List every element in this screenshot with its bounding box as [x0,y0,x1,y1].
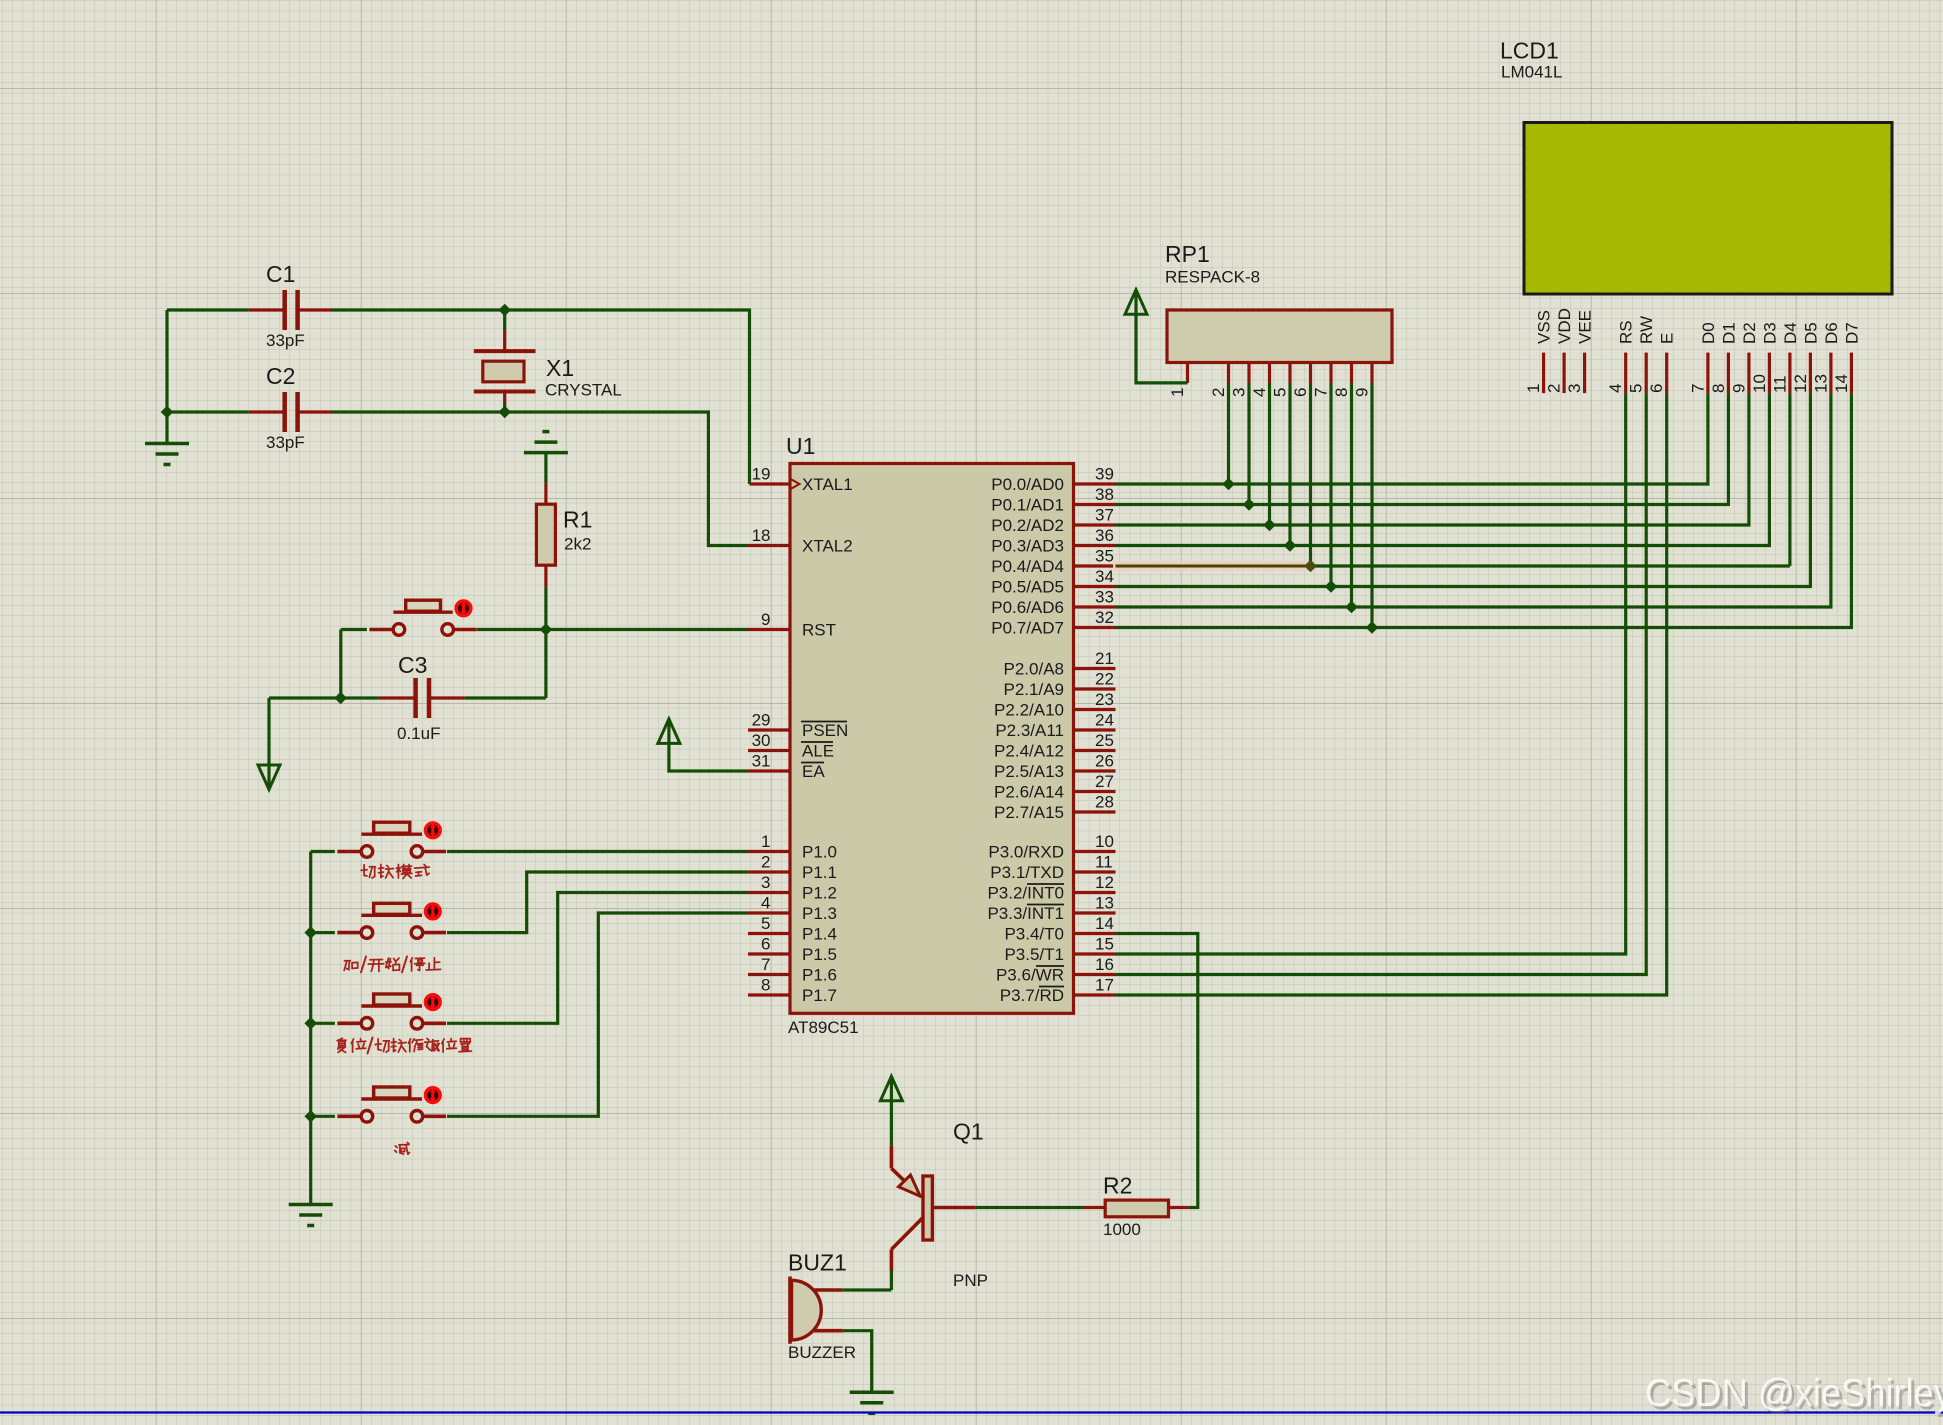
svg-text:1: 1 [1168,388,1187,397]
node P0.4/RP junction [1304,560,1317,573]
svg-text:P2.0/A8: P2.0/A8 [1004,660,1065,679]
label: switch mode (chinese) [361,869,367,872]
svg-text:P1.2: P1.2 [802,884,837,903]
ground (button bus) [289,1203,333,1207]
svg-text:12: 12 [1791,374,1810,393]
svg-text:14: 14 [1832,374,1851,393]
svg-text:12: 12 [1095,873,1114,892]
pin 2 P1.1 [748,870,790,873]
node P0.5/RP junction [1325,580,1338,593]
svg-text:D4: D4 [1781,322,1800,344]
svg-text:6: 6 [1291,388,1310,397]
svg-text:VEE: VEE [1576,310,1595,344]
svg-text:P1.0: P1.0 [802,843,837,862]
pin 5 RP1 [1288,363,1291,384]
LCD1 LM041L display [1524,123,1892,295]
wire RP1 pin4 drop [1268,383,1271,525]
svg-text:LM041L: LM041L [1501,63,1562,82]
svg-text:RST: RST [802,621,836,640]
svg-text:E: E [1658,333,1677,344]
svg-text:LCD1: LCD1 [1500,38,1559,64]
crystal X1 [503,310,506,330]
svg-text:BUZZER: BUZZER [788,1343,856,1362]
svg-text:32: 32 [1095,608,1114,627]
wire EA net [669,721,748,771]
pin 12 LCD D5 [1809,353,1812,394]
wire buzzer to ground [843,1331,872,1393]
svg-text:5: 5 [1627,384,1646,393]
wire RP1 pin9 drop [1370,383,1373,628]
svg-text:P3.1/TXD: P3.1/TXD [990,863,1064,882]
svg-text:CSDN @xieShirley: CSDN @xieShirley [1645,1372,1943,1415]
pin 21 P2.0/A8 [1074,667,1116,670]
svg-text:25: 25 [1095,731,1114,750]
svg-text:5: 5 [761,914,770,933]
pin 36 P0.3/AD3 [1074,544,1116,547]
svg-text:34: 34 [1095,567,1114,586]
node bus junction 2 [304,1017,317,1030]
pin 38 P0.1/AD1 [1074,503,1116,506]
wire P1.1 net [447,872,748,933]
svg-text:XTAL1: XTAL1 [802,475,853,494]
pin 7 LCD D0 [1706,353,1709,394]
capacitor C3 0.1uF [413,678,418,718]
window edge blue line [0,1411,1943,1413]
wire C2 net to XTAL2 [167,410,249,413]
svg-text:1: 1 [1524,384,1543,393]
svg-text:24: 24 [1095,711,1114,730]
svg-text:P2.7/A15: P2.7/A15 [994,803,1064,822]
svg-text:33pF: 33pF [266,331,305,350]
svg-text:D1: D1 [1719,322,1738,344]
svg-text:8: 8 [761,976,770,995]
pin 17 P3.7/RD [1074,993,1116,996]
push button (switch mode) [337,850,359,854]
pin 25 P2.4/A12 [1074,749,1116,752]
pin 22 P2.1/A9 [1074,687,1116,690]
pin 33 P0.6/AD6 [1074,605,1116,608]
pin 34 P0.5/AD5 [1074,585,1116,588]
svg-text:23: 23 [1095,690,1114,709]
pin 5 P1.4 [748,932,790,935]
wire P0.7 net [1116,393,1852,627]
ground (C2 left) [165,412,168,444]
node P0.6/RP junction [1345,601,1358,614]
svg-text:Q1: Q1 [953,1119,984,1145]
node P0.1/RP junction [1243,498,1256,511]
svg-text:30: 30 [752,731,771,750]
svg-text:10: 10 [1750,374,1769,393]
wire P0.6 net [1116,393,1831,607]
wire P0.0 net [1116,393,1708,484]
push button (reset/switch position) [337,1021,359,1025]
pin 16 P3.6/WR [1074,973,1116,976]
ground (buzzer) [850,1391,894,1395]
pin 19 XTAL1 [750,482,791,485]
label: add/start/stop (chinese) [345,960,351,962]
node X1 top junction [498,304,511,317]
wire RP1 pin7 drop [1329,383,1332,587]
svg-text:P3.2/INT0: P3.2/INT0 [987,884,1064,903]
pin 1 P1.0 [748,850,790,853]
pin 7 RP1 [1329,363,1332,384]
node bus junction 3 [304,1110,317,1123]
pin 14 P3.4/T0 [1074,932,1116,935]
pin 10 LCD D3 [1768,353,1771,394]
svg-text:D2: D2 [1740,322,1759,344]
pin 7 P1.6 [748,973,790,976]
pin 18 XTAL2 [748,544,790,547]
node P0.3/RP junction [1284,539,1297,552]
svg-text:PNP: PNP [953,1271,988,1290]
svg-text:9: 9 [761,610,770,629]
svg-text:P0.0/AD0: P0.0/AD0 [991,475,1064,494]
wire P3.5/T1 to LCD RS [1116,393,1626,954]
wire RP1 pin1 to power [1136,292,1188,383]
pin 26 P2.5/A13 [1074,769,1116,772]
svg-text:P3.3/INT1: P3.3/INT1 [987,904,1064,923]
pin 24 P2.3/A11 [1074,728,1116,731]
svg-text:11: 11 [1095,853,1113,872]
wire C1 net to XTAL1 [167,308,249,311]
svg-text:31: 31 [752,752,771,771]
svg-text:18: 18 [752,526,771,545]
svg-text:D5: D5 [1801,322,1820,344]
wire P0.4 highlighted net [1113,562,1316,571]
node X1 bottom junction [498,406,511,419]
pin 14 LCD D7 [1850,353,1853,394]
pin 6 P1.5 [748,952,790,955]
node C2-ground junction [161,406,174,419]
svg-text:RS: RS [1617,320,1636,344]
pin 3 RP1 [1247,363,1250,384]
wire collector to buzzer [890,1271,893,1291]
pin 9 RP1 [1370,363,1373,384]
svg-text:10: 10 [1095,832,1114,851]
svg-text:VSS: VSS [1535,310,1554,344]
power arrow (Q1 emitter) [880,1076,902,1101]
svg-text:22: 22 [1095,670,1114,689]
svg-text:ALE: ALE [802,742,834,761]
svg-text:3: 3 [1230,388,1249,397]
svg-text:1: 1 [761,832,770,851]
svg-text:P0.3/AD3: P0.3/AD3 [991,537,1064,556]
node C3 left junction [334,692,347,705]
pin 4 LCD RS [1624,353,1627,394]
svg-text:9: 9 [1729,384,1748,393]
wire P1.0 net [447,850,748,853]
wire P3.4/T0 to R2 [1116,934,1198,1208]
push button (add/start/stop) [337,931,359,935]
pin 15 P3.5/T1 [1074,952,1116,955]
svg-text:1000: 1000 [1103,1220,1141,1239]
svg-text:19: 19 [752,465,771,484]
svg-text:BUZ1: BUZ1 [788,1250,847,1276]
wire RP1 pin8 drop [1350,383,1353,607]
svg-text:37: 37 [1095,506,1114,525]
svg-text:7: 7 [761,955,770,974]
svg-text:R1: R1 [563,507,592,533]
pin 1 LCD VSS [1542,353,1545,394]
svg-text:P1.5: P1.5 [802,945,837,964]
pin 4 RP1 [1268,363,1271,384]
svg-text:C1: C1 [266,261,295,287]
pin 2 RP1 [1227,363,1230,384]
wire reset button left to C3 [341,628,367,631]
label: minus (chinese) [395,1146,397,1148]
pin 29 PSEN [748,728,790,731]
svg-text:X1: X1 [546,355,574,381]
pin 39 P0.0/AD0 [1074,482,1116,485]
pin 6 RP1 [1309,363,1312,384]
pin 28 P2.7/A15 [1074,810,1116,813]
wire RP1 pin5 drop [1288,383,1291,546]
pin 27 P2.6/A14 [1074,790,1116,793]
svg-text:D3: D3 [1760,322,1779,344]
capacitor C1 [282,290,287,330]
svg-text:26: 26 [1095,752,1114,771]
wire P1.2 net [447,893,748,1024]
pin 3 P1.2 [748,891,790,894]
svg-text:38: 38 [1095,485,1114,504]
power arrow (RP1 pin1) [1125,290,1147,315]
pin 8 RP1 [1350,363,1353,384]
svg-text:PSEN: PSEN [802,721,848,740]
wire RP1 pin3 drop [1247,383,1250,505]
svg-text:33: 33 [1095,588,1114,607]
svg-text:P3.5/T1: P3.5/T1 [1004,945,1064,964]
pin 3 LCD VEE [1583,353,1586,394]
svg-text:9: 9 [1353,388,1372,397]
svg-text:P3.4/T0: P3.4/T0 [1004,925,1064,944]
wire P3.6/WR to LCD RW [1116,393,1647,974]
svg-text:P0.6/AD6: P0.6/AD6 [991,598,1064,617]
svg-text:P2.2/A10: P2.2/A10 [994,701,1064,720]
svg-text:P1.4: P1.4 [802,925,837,944]
svg-text:2: 2 [1209,388,1228,397]
svg-text:VDD: VDD [1555,308,1574,344]
pin 11 P3.1/TXD [1074,870,1116,873]
svg-text:17: 17 [1095,976,1114,995]
node P0.2/RP junction [1263,519,1276,532]
svg-text:P1.7: P1.7 [802,986,837,1005]
svg-text:P0.1/AD1: P0.1/AD1 [991,496,1064,515]
svg-text:P2.4/A12: P2.4/A12 [994,742,1064,761]
svg-text:11: 11 [1770,375,1789,393]
svg-text:P1.3: P1.3 [802,904,837,923]
resistor R2 1000 [1084,1206,1106,1209]
svg-text:5: 5 [1271,388,1290,397]
pin 31 EA [748,769,790,772]
wire button ground bus [309,852,312,1205]
svg-text:P2.5/A13: P2.5/A13 [994,762,1064,781]
pin 13 LCD D6 [1829,353,1832,394]
wire P0.5 net [1116,393,1811,586]
svg-text:EA: EA [802,762,825,781]
svg-text:35: 35 [1095,547,1114,566]
resistor R1 2k2 [544,453,547,484]
svg-text:7: 7 [1688,384,1707,393]
svg-text:0.1uF: 0.1uF [397,724,440,743]
buzzer BUZ1 [792,1280,822,1340]
svg-text:13: 13 [1095,894,1114,913]
svg-text:6: 6 [761,935,770,954]
svg-text:21: 21 [1095,649,1114,668]
svg-text:13: 13 [1811,374,1830,393]
pin 37 P0.2/AD2 [1074,523,1116,526]
wire C3 to ground arrow [269,696,341,699]
svg-text:29: 29 [752,711,771,730]
wire P0.3 net [1116,393,1770,545]
svg-text:6: 6 [1647,384,1666,393]
svg-text:P3.0/RXD: P3.0/RXD [988,843,1064,862]
svg-text:33pF: 33pF [266,433,305,452]
svg-text:P3.7/RD: P3.7/RD [1000,986,1064,1005]
svg-text:RP1: RP1 [1165,241,1210,267]
svg-text:27: 27 [1095,772,1114,791]
svg-text:8: 8 [1709,384,1728,393]
svg-text:7: 7 [1312,388,1331,397]
label: reset/switch modify position (chinese) [338,1038,342,1040]
svg-text:C2: C2 [266,363,295,389]
svg-text:39: 39 [1095,465,1114,484]
svg-text:28: 28 [1095,793,1114,812]
pin 30 ALE [748,749,790,752]
svg-text:14: 14 [1095,914,1114,933]
pin 10 P3.0/RXD [1074,850,1116,853]
svg-text:4: 4 [1250,388,1269,397]
svg-text:R2: R2 [1103,1173,1132,1199]
node bus junction 1 [304,926,317,939]
svg-text:2: 2 [1545,384,1564,393]
svg-text:D7: D7 [1842,322,1861,344]
svg-text:P2.1/A9: P2.1/A9 [1004,680,1065,699]
pin 8 LCD D1 [1727,353,1730,394]
wire P0.2 net [1116,393,1749,525]
svg-text:D0: D0 [1699,322,1718,344]
svg-text:P2.6/A14: P2.6/A14 [994,783,1064,802]
svg-text:8: 8 [1332,388,1351,397]
svg-text:15: 15 [1095,935,1114,954]
svg-text:2k2: 2k2 [564,535,591,554]
svg-text:3: 3 [1565,384,1584,393]
pin 1 RP1 [1186,363,1189,384]
wire RP1 pin2 drop [1227,383,1230,484]
pin 4 P1.3 [748,911,790,914]
svg-text:36: 36 [1095,526,1114,545]
svg-text:C3: C3 [398,652,427,678]
svg-text:P2.3/A11: P2.3/A11 [995,721,1064,740]
wire C1-C2 left vertical [165,310,168,412]
svg-text:D6: D6 [1822,322,1841,344]
node P0.0/RP junction [1222,478,1235,491]
ground arrow (down) [258,765,280,790]
pin 11 LCD D4 [1788,353,1791,394]
svg-text:P0.2/AD2: P0.2/AD2 [991,516,1064,535]
svg-text:4: 4 [1606,384,1625,393]
push button (minus) [337,1115,359,1119]
svg-text:P1.1: P1.1 [802,863,837,882]
svg-text:RW: RW [1637,316,1656,344]
svg-text:P0.7/AD7: P0.7/AD7 [991,619,1064,638]
svg-text:4: 4 [761,894,770,913]
node P0.7/RP junction [1366,621,1379,634]
pin 13 P3.3/INT1 [1074,911,1116,914]
transistor Q1 PNP [890,1146,894,1169]
pin 5 LCD RW [1645,353,1648,394]
pin 6 LCD E [1665,353,1668,394]
pin 32 P0.7/AD7 [1074,626,1116,629]
svg-text:3: 3 [761,873,770,892]
pin 23 P2.2/A10 [1074,708,1116,711]
wire P3.7/RD to LCD E [1116,393,1667,995]
op-amp U1 AT89C51 body [790,464,1074,1014]
pin 9 RST [748,628,790,631]
svg-text:16: 16 [1095,955,1114,974]
node R1-RST junction [540,623,553,636]
svg-text:P1.6: P1.6 [802,966,837,985]
svg-text:RESPACK-8: RESPACK-8 [1165,268,1260,287]
svg-text:CRYSTAL: CRYSTAL [545,381,622,400]
wire emitter power [890,1079,893,1146]
pin 35 P0.4/AD4 [1074,564,1116,567]
svg-text:2: 2 [761,853,770,872]
capacitor C2 [282,392,287,432]
svg-text:U1: U1 [786,433,815,459]
pin 12 P3.2/INT0 [1074,891,1116,894]
wire base to R2 [975,1206,1083,1209]
svg-text:P0.4/AD4: P0.4/AD4 [991,557,1064,576]
pin 9 LCD D2 [1747,353,1750,394]
push button (reset) [369,628,391,632]
svg-text:P3.6/WR: P3.6/WR [996,966,1064,985]
power rail (above R1) [524,451,568,455]
pin 2 LCD VDD [1562,353,1565,394]
resistor pack RP1 RESPACK-8 [1167,310,1392,363]
wire P0.1 net [1116,393,1729,504]
svg-text:P0.5/AD5: P0.5/AD5 [991,578,1064,597]
svg-text:AT89C51: AT89C51 [788,1018,859,1037]
wire P1.3 net [447,913,748,1116]
svg-text:XTAL2: XTAL2 [802,537,853,556]
wire RST net [477,628,748,631]
pin 8 P1.7 [748,993,790,996]
power arrow (EA) [658,719,680,744]
wire RP1 pin6 drop [1309,383,1312,566]
